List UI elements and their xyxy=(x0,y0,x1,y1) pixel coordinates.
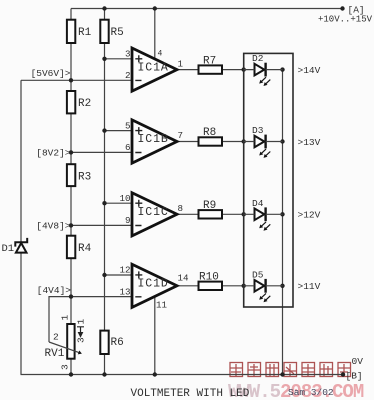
resistor labels xyxy=(45,27,219,360)
svg-text:D1: D1 xyxy=(2,243,15,255)
resistor R5 xyxy=(100,20,108,43)
wire IC1B pin5 input xyxy=(105,130,133,132)
wire IC1D output to R10 xyxy=(177,285,199,287)
node 4V8 xyxy=(69,223,73,227)
node 5V6 xyxy=(69,78,73,82)
svg-text:[4V4]>: [4V4]> xyxy=(37,285,72,296)
node rail R6 xyxy=(102,372,106,376)
svg-text:[8V2]>: [8V2]> xyxy=(36,148,71,159)
svg-text:11: 11 xyxy=(156,300,168,311)
wire RV1 wiper branch xyxy=(49,297,71,342)
resistor R3 xyxy=(67,164,75,186)
wire bottom 0V rail xyxy=(21,374,344,376)
resistor R2 xyxy=(67,91,75,113)
resistor R1 xyxy=(67,20,75,43)
node D2 cathode xyxy=(280,67,284,71)
wire R6 bottom to 0V rail xyxy=(104,354,106,375)
wire R1 bottom to node 5V6 xyxy=(70,43,72,80)
resistor R4 xyxy=(67,236,75,259)
wire R9 to LED D4 xyxy=(222,213,244,215)
node D4 cathode xyxy=(280,212,284,216)
potentiometer RV1 body xyxy=(67,324,74,359)
svg-text:R9: R9 xyxy=(203,200,216,212)
node D4 anode xyxy=(242,212,246,216)
svg-text:3: 3 xyxy=(60,364,71,370)
LED D3 xyxy=(244,125,283,158)
svg-text:0V: 0V xyxy=(352,356,364,367)
wire RV1 bottom to 0V rail xyxy=(70,359,72,375)
svg-text:IC1C: IC1C xyxy=(138,206,169,219)
svg-text:IC1B: IC1B xyxy=(138,133,169,146)
node A terminal xyxy=(340,6,344,10)
wire node 5V6 to R2 xyxy=(70,80,72,91)
svg-text:3: 3 xyxy=(75,337,86,343)
node 8V2 xyxy=(69,150,73,154)
resistor R10 xyxy=(199,282,223,290)
svg-text:2: 2 xyxy=(125,70,131,81)
wire D1 column upper xyxy=(20,80,22,242)
svg-text:10: 10 xyxy=(120,193,131,204)
node sense pin10 xyxy=(102,201,106,205)
node B terminal xyxy=(341,372,345,376)
svg-text:D4: D4 xyxy=(252,198,264,209)
potentiometer RV1 wiper diagonal with arrowhead xyxy=(49,342,79,353)
svg-text:3: 3 xyxy=(125,49,131,60)
svg-text:>12V: >12V xyxy=(298,210,321,221)
watermark chinese red text row xyxy=(230,363,351,377)
svg-text:R5: R5 xyxy=(111,27,124,39)
node D3 cathode xyxy=(280,139,284,143)
wire D1 column lower xyxy=(20,253,22,375)
node top rail R5 junction xyxy=(102,6,106,10)
wire R7 to LED D2 xyxy=(222,69,244,71)
wire IC1A pin3 input xyxy=(105,58,133,60)
node D5 cathode xyxy=(280,284,284,288)
wire R8 to LED D3 xyxy=(222,141,244,143)
node sense pin3 xyxy=(102,57,106,61)
node rail RV1 xyxy=(69,372,73,376)
wire node 8V2 to IC1B pin6 xyxy=(71,151,132,153)
op-amp IC1D xyxy=(120,264,190,310)
resistor R6 xyxy=(100,331,108,354)
wire top rail stub to R5 xyxy=(104,9,106,20)
wire IC1A pin4 supply xyxy=(154,9,156,59)
wire R2 bottom to node 8V2 xyxy=(70,113,72,164)
wire R3 bottom to node 4V8 xyxy=(70,186,72,236)
svg-text:[4V8]>: [4V8]> xyxy=(36,220,71,231)
svg-text:D2: D2 xyxy=(252,53,264,64)
svg-text:1: 1 xyxy=(60,315,71,321)
wire IC1C output to R9 xyxy=(177,213,199,215)
wire top supply rail xyxy=(71,8,343,10)
wire LED cathode rail xyxy=(282,70,284,375)
svg-text:14: 14 xyxy=(178,272,190,283)
svg-text:VOLTMETER WITH LED: VOLTMETER WITH LED xyxy=(131,388,250,400)
wire IC1D pin12 input xyxy=(105,274,133,276)
wire top rail stub to R1 xyxy=(70,9,72,20)
resistor R9 xyxy=(199,210,223,218)
LED D5 xyxy=(244,269,283,302)
wire R10 to LED D5 xyxy=(222,285,244,287)
wire node 4V4 down to RV1 pin1 xyxy=(70,297,72,324)
op-amp IC1C xyxy=(120,193,184,236)
wire sense column R5 to R6 xyxy=(104,43,106,331)
svg-text:7: 7 xyxy=(178,130,184,141)
node D3 anode xyxy=(242,139,246,143)
node top rail pin4 junction xyxy=(153,6,157,10)
svg-text:R6: R6 xyxy=(111,337,124,349)
LED D2 xyxy=(244,53,283,86)
svg-text:+10V..+15V: +10V..+15V xyxy=(318,15,373,25)
node sense pin5 xyxy=(102,128,106,132)
op-amp IC1B xyxy=(125,120,183,163)
wire IC1D pin11 ground xyxy=(154,297,156,375)
svg-text:1: 1 xyxy=(76,319,87,325)
zener D1 triangle xyxy=(16,243,27,253)
node sense pin12 xyxy=(102,273,106,277)
svg-text:>11V: >11V xyxy=(298,281,321,292)
threshold labels xyxy=(298,65,321,292)
node D2 anode xyxy=(242,67,246,71)
node 4V4 xyxy=(69,294,73,298)
resistor R8 xyxy=(199,137,223,145)
svg-text:4: 4 xyxy=(158,50,163,59)
svg-text:13: 13 xyxy=(120,286,131,297)
wire IC1C pin10 input xyxy=(105,202,133,204)
node rail LED return xyxy=(280,372,284,376)
svg-text:5: 5 xyxy=(125,120,131,131)
LED D4 xyxy=(244,198,283,231)
svg-text:RV1: RV1 xyxy=(45,348,65,360)
svg-text:R3: R3 xyxy=(78,171,91,183)
svg-text:[5V6V]>: [5V6V]> xyxy=(31,68,71,79)
svg-text:R7: R7 xyxy=(203,55,216,67)
wire IC1A output to R7 xyxy=(177,69,199,71)
svg-text:D5: D5 xyxy=(252,269,264,280)
svg-text:R8: R8 xyxy=(203,127,216,139)
svg-text:12: 12 xyxy=(120,265,131,276)
zener D1 cathode bar with hooks xyxy=(15,238,27,247)
wire node 4V4 to IC1D pin13 xyxy=(71,296,132,298)
svg-text:IC1A: IC1A xyxy=(138,61,169,74)
svg-text:1: 1 xyxy=(178,58,184,69)
RV1 rotation mark arrow xyxy=(77,327,84,337)
svg-text:Sam 3/02: Sam 3/02 xyxy=(288,387,334,398)
node D5 anode xyxy=(242,284,246,288)
svg-text:R10: R10 xyxy=(199,272,219,284)
svg-text:2: 2 xyxy=(53,332,59,343)
svg-text:9: 9 xyxy=(125,215,131,226)
wire node 5V6 horizontal to D1 column and IC1A pin2 xyxy=(21,79,132,81)
svg-text:R2: R2 xyxy=(78,98,91,110)
wire R4 bottom to node 4V4 xyxy=(70,258,72,296)
op-amp IC1A xyxy=(125,48,184,91)
wire IC1B output to R8 xyxy=(177,141,199,143)
svg-text:D3: D3 xyxy=(252,125,264,136)
node rail pin11 xyxy=(153,372,157,376)
svg-text:R1: R1 xyxy=(78,27,92,39)
svg-text:8: 8 xyxy=(178,203,184,214)
svg-text:6: 6 xyxy=(125,142,131,153)
resistor R7 xyxy=(199,65,223,73)
svg-text:R4: R4 xyxy=(78,243,92,255)
wire node 4V8 to IC1C pin9 xyxy=(71,224,132,226)
svg-text:[B]: [B] xyxy=(346,371,363,382)
svg-text:>14V: >14V xyxy=(298,65,321,76)
svg-text:IC1D: IC1D xyxy=(138,278,169,291)
svg-text:>13V: >13V xyxy=(298,137,321,148)
